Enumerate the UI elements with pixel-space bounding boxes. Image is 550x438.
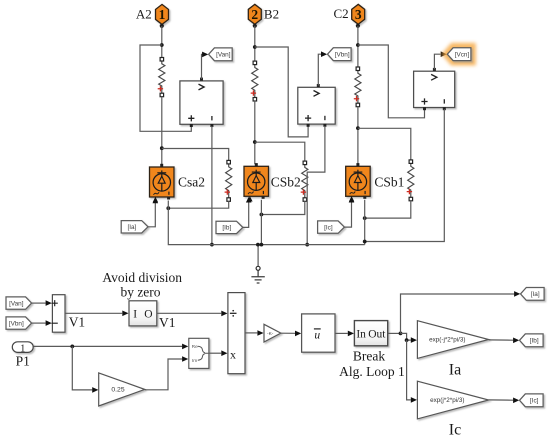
wire exp Ia to goto [Ib] — [489, 339, 514, 341]
In Out block (Break Algebraic Loop) — [354, 321, 387, 346]
wire P1 branch to gain 0.25 — [72, 346, 92, 390]
resistor R shunt A — [226, 162, 232, 199]
goto tag [Ia] lower — [521, 288, 545, 301]
controlled current source CSb1 — [346, 166, 371, 196]
wire node down to exp gain Ic — [407, 340, 411, 400]
node on CSb2 output wire — [260, 213, 264, 217]
svg-text:O: O — [144, 309, 152, 321]
svg-text:Im: Im — [192, 358, 197, 364]
resistor R series B — [252, 63, 258, 99]
wire node to exp gain Ia — [401, 333, 411, 340]
controlled current source CSb2 — [244, 166, 269, 196]
node Vbn minus on bus — [305, 243, 309, 247]
port 1 hexagon (A2) — [156, 4, 169, 24]
svg-text:[Ic]: [Ic] — [530, 398, 539, 405]
svg-text:[Ic]: [Ic] — [324, 224, 333, 231]
wire Van minus to bus — [211, 126, 213, 245]
gain block exp(j*2*pi/3) (Ic) — [417, 381, 488, 419]
node after InOut — [399, 332, 403, 336]
svg-text:V1: V1 — [159, 315, 176, 330]
complex conjugate block u-bar — [302, 314, 335, 352]
wire A2 resistor to Csa2 — [161, 97, 163, 165]
wire [Ia] to Csa2 input — [148, 202, 155, 227]
wire node up to goto [Ia] — [401, 294, 515, 333]
wire [Vbn] to sum — [32, 322, 46, 324]
node A2 lower junction — [160, 146, 164, 150]
wire 0.25 to Im input — [145, 359, 183, 390]
goto tag [Vbn] — [328, 48, 352, 61]
wire C2 resistor to CSb1 — [357, 107, 359, 165]
port 1 dot — [160, 24, 164, 28]
port 3 dot — [356, 24, 360, 28]
wire shunt B to CSb2 output wire — [261, 201, 304, 214]
svg-text:2: 2 — [251, 7, 258, 22]
wire shunt C to CSb1 output wire — [365, 201, 411, 218]
svg-text:P1: P1 — [16, 354, 30, 369]
node CSb1 wire to right bus — [363, 240, 367, 244]
wire CSb1 output to bus — [364, 200, 366, 245]
wire exp Ic to goto [Ic] — [489, 399, 514, 401]
svg-text:In Out: In Out — [356, 328, 386, 340]
node CSb2 output on bus — [260, 243, 264, 247]
voltage measurement block Vcn — [414, 71, 455, 107]
svg-text:C2: C2 — [334, 6, 349, 21]
wire B2 down to series resistor — [254, 26, 256, 61]
real-imag to complex block — [189, 338, 209, 368]
wire P1 to Re input — [33, 345, 182, 347]
wire C2 down to series resistor — [357, 26, 359, 67]
gain block -K- — [264, 324, 281, 342]
wire shunt A to Csa2 output wire — [168, 201, 228, 208]
svg-text:Alg. Loop 1: Alg. Loop 1 — [339, 364, 405, 379]
svg-text:B2: B2 — [264, 7, 279, 22]
node exp branch — [405, 338, 409, 342]
wire complex to divide x input — [209, 352, 221, 354]
svg-text:x: x — [230, 348, 236, 362]
node P1 branch — [70, 345, 74, 349]
voltage measurement block Van — [180, 81, 223, 124]
wire B2 branch to shunt resistor RB — [255, 142, 305, 161]
wire Vcn v-output to goto tag — [434, 54, 440, 69]
svg-text:exp(j*2*pi/3): exp(j*2*pi/3) — [430, 397, 464, 404]
port 2 dot — [253, 24, 257, 28]
voltage measurement block Vbn — [298, 87, 335, 124]
wire A2 down to series resistor — [161, 26, 163, 58]
resistor R series C — [355, 69, 361, 105]
wire Csa2 output to bus — [168, 201, 364, 245]
wire CSb2 output to bus — [260, 200, 262, 245]
svg-text:[Ia]: [Ia] — [531, 291, 540, 298]
node ground tee — [256, 243, 260, 247]
svg-text:u: u — [314, 330, 320, 342]
wire C2 branch to Vcn + input — [358, 45, 425, 118]
resistor R shunt C — [408, 162, 414, 199]
svg-text:[Van]: [Van] — [9, 300, 24, 307]
svg-text:[Vbn]: [Vbn] — [9, 320, 24, 327]
wire InOut to node — [388, 332, 401, 334]
wire divide to gain -K- — [245, 332, 257, 334]
resistor R series A — [159, 59, 165, 95]
wire saturation to divide — [157, 312, 221, 314]
svg-text:3: 3 — [355, 7, 362, 22]
wire -K- to u-conj — [281, 332, 295, 334]
wire [Van] to sum — [32, 302, 46, 304]
svg-text:Ia: Ia — [449, 362, 461, 379]
saturation block (avoid div by zero) — [129, 301, 157, 326]
svg-text:Avoid division: Avoid division — [102, 270, 182, 285]
svg-text:Re: Re — [192, 344, 198, 350]
wire B2 resistor to CSb2 — [254, 101, 256, 164]
goto tag [Ib] lower — [520, 334, 544, 347]
wire [Ic] to CSb1 input — [345, 201, 352, 227]
svg-text:1: 1 — [159, 7, 166, 22]
wire Vcn minus to right bus — [365, 109, 445, 242]
wire B2 branch to Vbn + input — [255, 47, 308, 137]
node Van minus on bus — [210, 243, 214, 247]
wire sum to saturation — [65, 312, 122, 314]
node B2 upper junction — [253, 45, 257, 49]
ground G1 — [256, 266, 260, 270]
wire A2 branch to Van + input — [140, 45, 191, 131]
from tag [Ic] — [318, 221, 345, 233]
wire A2 branch to shunt resistor RA — [162, 149, 229, 161]
svg-text:[Ib]: [Ib] — [222, 225, 231, 232]
svg-text:0.25: 0.25 — [111, 387, 124, 394]
svg-text:Break: Break — [353, 349, 385, 364]
inport P1 — [12, 342, 33, 353]
svg-text:-K-: -K- — [267, 331, 274, 337]
wire [Ib] to CSb2 input — [243, 201, 249, 228]
resistor R shunt B — [302, 163, 308, 200]
node B2 lower junction — [253, 140, 257, 144]
goto tag [Van] — [209, 48, 233, 61]
svg-text:by zero: by zero — [120, 285, 160, 300]
port 3 hexagon (C2) — [352, 4, 365, 24]
node A2 upper junction — [160, 43, 164, 47]
from tag [Ib] — [216, 221, 243, 233]
svg-text:CSb1: CSb1 — [374, 175, 404, 190]
svg-text:V1: V1 — [69, 315, 86, 330]
wire Van v-output to goto tag — [202, 54, 203, 79]
divide block — [228, 293, 245, 374]
sum block V1 — [52, 295, 65, 333]
svg-text:[Ia]: [Ia] — [127, 224, 136, 231]
node on CSb1 output wire — [363, 216, 367, 220]
svg-text:exp(-j*2*pi/3): exp(-j*2*pi/3) — [429, 337, 465, 344]
svg-text:[Van]: [Van] — [216, 52, 231, 59]
node on Csa2 output wire — [166, 206, 170, 210]
gain block exp(-j*2*pi/3) (Ia) — [417, 321, 488, 359]
gain block 0.25 — [99, 373, 145, 406]
svg-text:Csa2: Csa2 — [178, 175, 205, 190]
svg-text:A2: A2 — [136, 7, 152, 22]
port 2 hexagon (B2) — [248, 4, 261, 24]
svg-text:[Ib]: [Ib] — [530, 338, 539, 345]
svg-text:CSb2: CSb2 — [271, 175, 301, 190]
node C2 upper junction — [356, 43, 360, 47]
wire Vbn minus to bus — [307, 126, 325, 245]
svg-text:I: I — [133, 309, 137, 321]
from tag [Van] lower — [6, 297, 32, 309]
svg-text:[Vbn]: [Vbn] — [335, 51, 350, 58]
wire u-conj to InOut — [335, 332, 348, 334]
node C2 lower junction — [356, 126, 360, 130]
svg-text:Ic: Ic — [449, 422, 461, 438]
from tag [Ia] — [121, 221, 148, 233]
wire bus to ground — [257, 245, 259, 267]
wire C2 branch to shunt resistor RC — [358, 128, 411, 160]
svg-text:[Vcn]: [Vcn] — [455, 51, 470, 58]
from tag [Vbn] lower — [6, 317, 32, 329]
goto tag [Ic] lower — [520, 394, 544, 407]
controlled current source Csa2 — [150, 167, 175, 197]
wire Vbn v-output to goto tag — [318, 54, 321, 85]
goto tag [Vcn] highlighted — [444, 45, 474, 64]
